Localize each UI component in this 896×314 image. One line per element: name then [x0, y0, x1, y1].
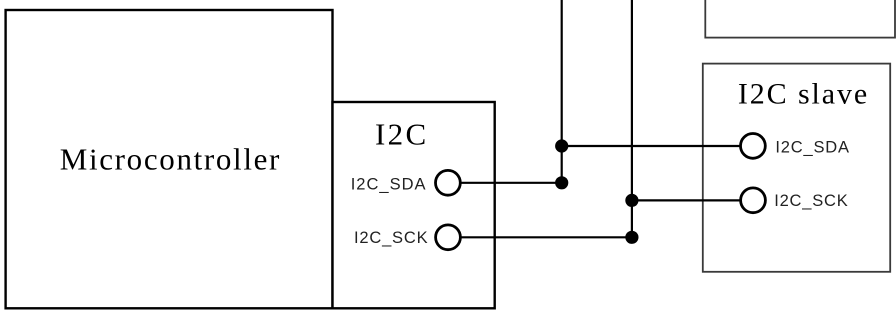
svg-text:I2C_SDA: I2C_SDA — [351, 176, 427, 194]
svg-text:Microcontroller: Microcontroller — [60, 142, 281, 177]
svg-text:I2C: I2C — [375, 116, 429, 151]
svg-text:I2C_SDA: I2C_SDA — [775, 139, 849, 157]
svg-text:I2C_SCK: I2C_SCK — [774, 192, 848, 210]
svg-text:I2C_SCK: I2C_SCK — [354, 229, 428, 247]
svg-text:I2C slave: I2C slave — [738, 77, 869, 110]
